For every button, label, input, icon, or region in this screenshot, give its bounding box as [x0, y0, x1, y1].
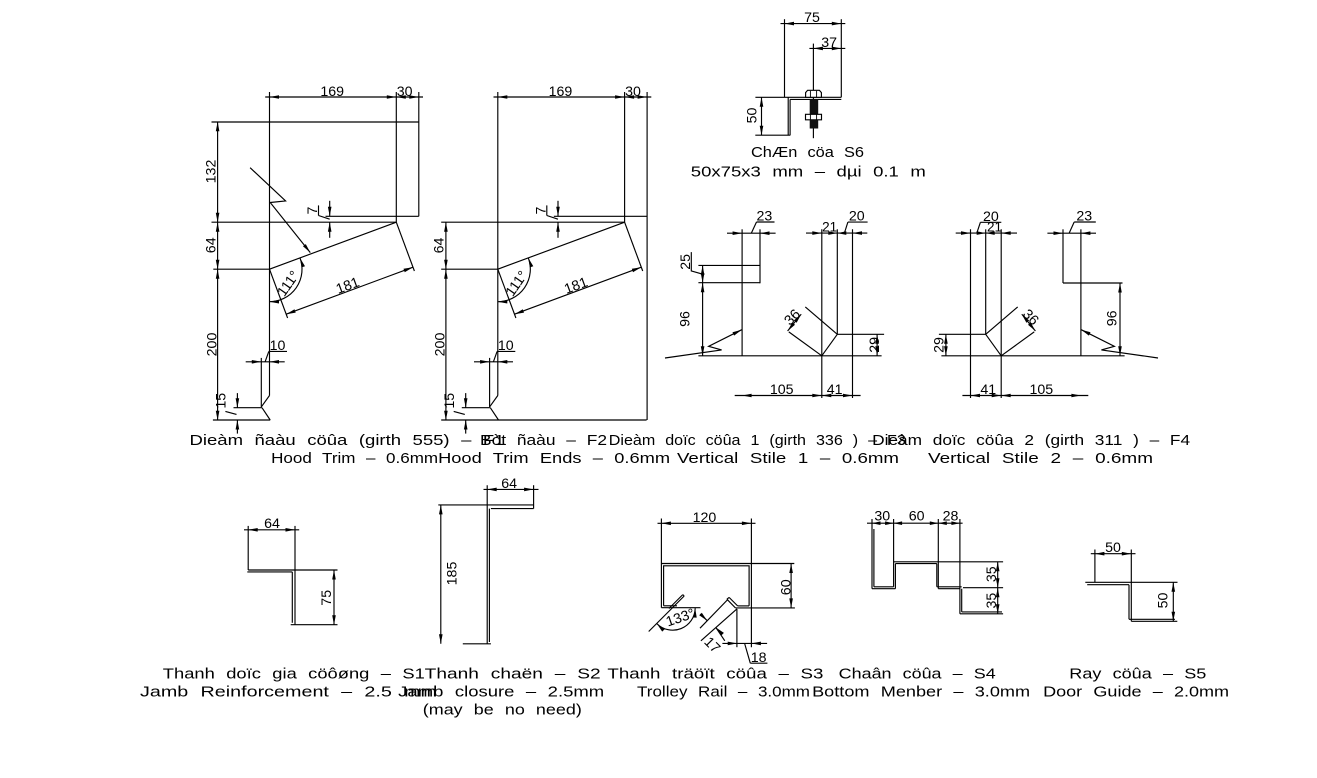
ext line F1 y269 — [213, 268, 269, 270]
profile F4 vertical 21b — [985, 229, 987, 334]
profile S1 left vertical — [247, 526, 249, 570]
profile F4 step horizontal — [1063, 282, 1123, 284]
profile F2 outer right vertical — [646, 92, 648, 420]
svg-text:105: 105 — [1029, 382, 1053, 398]
bolt S6 head — [806, 90, 822, 97]
svg-text:30: 30 — [874, 509, 890, 525]
svg-text:ChÆn cöa S6: ChÆn cöa S6 — [751, 145, 864, 161]
bolt S6 shank lower — [810, 120, 819, 129]
dim 18 S3 arrows — [728, 642, 738, 646]
dim 105 F3 arrows — [742, 394, 752, 398]
profile F1 long step line — [212, 221, 397, 223]
dim 18 S3 line — [722, 642, 767, 644]
dim 181 F1 left ext — [270, 269, 288, 318]
profile F2 offset vertical — [489, 358, 491, 407]
ext S6 right vertical — [840, 19, 842, 97]
svg-text:Bòt ñaàu – F2: Bòt ñaàu – F2 — [480, 433, 607, 449]
dim 36 F3 arrows — [794, 314, 801, 323]
dim 20 F4 arrows — [986, 231, 995, 235]
bolt S6 shank upper — [810, 99, 819, 114]
dim 111deg F2 arc — [498, 258, 531, 302]
profile F3 vertical 21a — [821, 229, 823, 398]
svg-text:25: 25 — [678, 254, 694, 270]
svg-text:Thanh doïc gia cöôøng – S1: Thanh doïc gia cöôøng – S1 — [163, 667, 425, 683]
profile F4 flange diag lower — [1001, 332, 1034, 356]
profile S4 bottom right inner — [962, 611, 1002, 613]
profile S4 mid top inner — [895, 563, 936, 565]
dim 10 F2 underline — [497, 350, 515, 352]
dim 169 F2 arrows — [498, 95, 508, 99]
dim 181 F2 dim line — [515, 267, 642, 314]
dim 30/60/28 S4 line — [867, 522, 963, 524]
dim 50 S5 top arrows — [1095, 552, 1105, 556]
dim 105 F4 arrows — [1001, 394, 1011, 398]
dim 35 upper S4 arrows — [996, 562, 1000, 572]
dim 75 S6 line — [781, 23, 846, 25]
svg-text:169: 169 — [549, 84, 573, 100]
profile S3 bottom left inner — [664, 605, 677, 607]
dim 200 F2 arrows — [444, 269, 448, 279]
ext S6 left vertical — [784, 19, 786, 97]
svg-text:132: 132 — [203, 160, 219, 184]
profile S2 inner vertical — [488, 509, 490, 642]
dim 37 S6 line — [809, 47, 845, 49]
svg-text:Hood Trim – 0.6mm: Hood Trim – 0.6mm — [271, 451, 438, 467]
svg-text:7: 7 — [305, 206, 321, 214]
svg-text:96: 96 — [678, 311, 694, 327]
svg-text:Thanh chaën – S2: Thanh chaën – S2 — [425, 667, 601, 683]
svg-text:50: 50 — [1155, 593, 1171, 609]
profile S4 left leg inner — [873, 529, 875, 587]
svg-text:169: 169 — [320, 84, 344, 100]
profile F1 inner right vertical — [395, 92, 397, 222]
svg-text:64: 64 — [432, 238, 448, 254]
profile S4 bottom right outer — [960, 613, 1003, 615]
profile S3 right lip inner — [729, 597, 738, 606]
profile F3 vertical 20 — [852, 229, 854, 398]
profile S5 mid vertical outer — [1130, 550, 1132, 622]
profile F3 vertical 21b — [836, 229, 838, 334]
dim 29 F4 line — [945, 334, 947, 356]
profile F4 flange diag upper — [986, 307, 1018, 334]
svg-text:18: 18 — [751, 650, 767, 666]
dim 169/30 F1 dim line — [265, 96, 423, 98]
dim 25 F3 leader — [691, 252, 701, 274]
profile F3 step horizontal — [837, 333, 884, 335]
leader F3 zigzag — [665, 330, 742, 358]
profile S4 right leg inner — [961, 589, 963, 612]
dim 17 S3 ext B — [701, 609, 737, 641]
dim 21 F3 arrows — [812, 231, 822, 235]
profile S5 top inner line — [1087, 584, 1129, 586]
dim 20 F3 underline — [848, 221, 868, 223]
profile S3 bottom left outer — [661, 607, 700, 609]
dim column F1 line — [217, 122, 219, 421]
svg-text:60: 60 — [778, 579, 794, 595]
dim 23 F4 underline — [1074, 221, 1096, 223]
profile S5 left vertical — [1094, 550, 1096, 583]
profile F1 bottom line — [213, 419, 270, 421]
profile F1 jog diagonal — [261, 396, 269, 407]
bolt S6 centerline — [812, 44, 814, 139]
dim 181 F2 arrows — [515, 309, 525, 314]
dim 111deg F1 arc — [270, 258, 303, 302]
svg-text:64: 64 — [264, 516, 280, 532]
dim 7 F2 slant — [547, 216, 558, 220]
svg-text:120: 120 — [693, 510, 717, 526]
dim 15 F1 slant — [225, 411, 236, 414]
svg-text:10: 10 — [498, 338, 514, 354]
svg-text:Vertical Stile 2 – 0.6mm: Vertical Stile 2 – 0.6mm — [928, 451, 1153, 467]
dim 25/96 F3 line — [702, 265, 704, 355]
profile S4 mid shelf outer — [938, 588, 960, 590]
dim 30 F2 arrows — [625, 95, 635, 99]
profile S1 bottom line — [291, 624, 338, 626]
dim 20 F4 underline — [980, 221, 1001, 223]
dim 120 S3 arrows — [661, 522, 671, 526]
profile F1 foot top — [234, 407, 263, 409]
dim 50 S6 arrows — [760, 97, 764, 107]
dim 17 S3 arrows — [699, 613, 707, 621]
profile S3 inner rect — [664, 566, 750, 606]
svg-text:(may be no need): (may be no need) — [423, 702, 582, 718]
svg-text:64: 64 — [203, 237, 219, 253]
svg-text:Trolley Rail – 3.0mm: Trolley Rail – 3.0mm — [637, 685, 810, 701]
svg-text:23: 23 — [757, 209, 773, 225]
dim 18 S3 ext — [736, 609, 738, 647]
dim 133deg S3 arc — [657, 608, 695, 630]
svg-text:Door Guide – 2.0mm: Door Guide – 2.0mm — [1043, 685, 1229, 701]
profile F4 bend diagonal — [986, 334, 1002, 356]
dim 50 S5 right arrows — [1172, 582, 1176, 592]
dim 35/35 S4 line — [997, 562, 999, 614]
svg-text:96: 96 — [1105, 310, 1121, 326]
dim 41/105 F4 line — [962, 395, 1088, 397]
leader F4 zigzag — [1081, 330, 1158, 358]
profile F4 vertical 20 — [970, 229, 972, 398]
svg-text:75: 75 — [319, 590, 335, 606]
profile S2 left vertical — [486, 485, 488, 644]
dim 21/20 F3 line — [806, 232, 867, 234]
svg-text:Ray cöûa – S5: Ray cöûa – S5 — [1069, 667, 1206, 683]
dim 21 F4 arrows — [1001, 231, 1011, 235]
dim 28 S4 arrows — [938, 521, 947, 525]
profile F3 flange top — [698, 264, 760, 266]
profile F1 inclined edge — [270, 222, 397, 269]
svg-text:10: 10 — [270, 338, 286, 354]
profile S3 outer left vertical — [660, 519, 662, 608]
profile S3 outer top — [661, 563, 794, 565]
dim 17 S3 line — [701, 614, 708, 621]
profile F2 foot right slant — [490, 408, 498, 420]
dim 29 F3 arrows — [875, 334, 879, 344]
dim 96 F4 arrows — [1118, 283, 1122, 293]
ext S4 mid 35 — [963, 587, 1003, 589]
dim 181 F2 right ext — [625, 222, 643, 271]
dim 111deg F2 arrows — [528, 258, 533, 268]
dim 7 F1 tick — [318, 205, 320, 215]
dim 30 S4 arrows — [872, 521, 881, 525]
profile F1 top line — [212, 121, 419, 123]
dim 15 F1 line — [236, 393, 238, 408]
svg-text:75: 75 — [804, 10, 820, 26]
dim 10 F1 slant — [265, 351, 269, 361]
dim 20 F3 arrows — [828, 231, 837, 235]
dim 75 S6 arrows — [785, 22, 795, 26]
dim 181 F2 left ext — [498, 269, 516, 318]
svg-text:35: 35 — [984, 566, 1000, 582]
profile F3 flange right vertical — [759, 229, 761, 283]
profile F3 flange diag upper — [805, 307, 837, 334]
svg-text:50: 50 — [1105, 540, 1121, 556]
svg-text:Dieàm doïc cöûa 2 (girth 311 ): Dieàm doïc cöûa 2 (girth 311 ) – F4 — [872, 433, 1190, 449]
svg-text:15: 15 — [442, 393, 458, 409]
svg-text:15: 15 — [214, 393, 230, 409]
profile F4 step vertical — [1062, 229, 1064, 283]
profile F2 long step line — [441, 221, 624, 223]
profile S3 bottom right outer — [735, 607, 795, 609]
svg-text:30: 30 — [625, 84, 641, 100]
svg-text:Dieàm doïc cöûa 1 (girth 336 ): Dieàm doïc cöûa 1 (girth 336 ) – F3 — [609, 433, 906, 449]
dim 37 S6 arrows — [813, 47, 823, 51]
dim 60 S3 arrows — [789, 564, 793, 574]
svg-text:Jamb Reinforcement – 2.5 mm: Jamb Reinforcement – 2.5 mm — [140, 685, 437, 701]
svg-text:37: 37 — [821, 35, 837, 51]
dim 18 S3 underline — [750, 662, 767, 664]
profile S4 bottom left inner — [874, 586, 894, 588]
profile S5 bottom outer — [1131, 620, 1177, 622]
dim 169 F1 arrows — [270, 95, 280, 99]
dim 15 F1 arrows — [236, 398, 240, 408]
dim 30 F1 arrows — [396, 95, 406, 99]
dim 64 F2 arrows — [444, 222, 448, 232]
ext line F2 y269 — [441, 268, 498, 270]
profile S2 right cap — [533, 485, 535, 508]
profile F4 bottom line — [941, 355, 1124, 357]
dim 7 F1 slant — [319, 216, 330, 220]
dim 20 F3 slant — [844, 222, 848, 233]
profile S5 mid vertical inner — [1128, 585, 1130, 620]
svg-text:Bottom Menber – 3.0mm: Bottom Menber – 3.0mm — [812, 685, 1030, 701]
svg-text:20: 20 — [849, 209, 865, 225]
profile S3 outer right vertical — [750, 519, 752, 648]
dim 23 F3 arrows — [733, 231, 743, 235]
svg-text:Chaân cöûa – S4: Chaân cöûa – S4 — [839, 667, 996, 683]
dim 36 F4 arrows — [1022, 314, 1029, 323]
dim 7 F2 tick — [546, 205, 548, 215]
svg-text:105: 105 — [770, 382, 794, 398]
dim 7 F2 line — [557, 201, 559, 217]
dim 36 F4 line — [1022, 314, 1036, 331]
profile S4 mid leg left — [893, 519, 895, 587]
dim 29 F4 arrows — [944, 334, 948, 344]
leader F4 arrow — [1081, 330, 1090, 336]
svg-text:29: 29 — [932, 337, 948, 353]
profile S4 right leg outer — [959, 519, 961, 614]
dim 7 F1 arrows — [328, 207, 332, 217]
svg-text:Hood Trim Ends – 0.6mm: Hood Trim Ends – 0.6mm — [438, 451, 670, 467]
profile S4 left leg outer — [871, 519, 873, 589]
svg-text:64: 64 — [501, 476, 517, 492]
dim 60 S3 line — [790, 564, 792, 608]
svg-text:50x75x3 mm – dµi 0.1 m: 50x75x3 mm – dµi 0.1 m — [691, 164, 926, 180]
ext S6 bottom — [755, 134, 790, 136]
dim 29 F3 line — [876, 334, 878, 356]
dim 50 S5 top line — [1091, 553, 1136, 555]
profile S2 bottom line — [463, 643, 491, 645]
dim 23 F3 slant — [751, 222, 756, 233]
dim 10 F1 arrows — [252, 360, 261, 364]
dim 181 F1 dim line — [286, 267, 413, 314]
profile F1 offset vertical — [260, 358, 262, 407]
svg-text:41: 41 — [980, 382, 996, 398]
bracket S6 flange top — [755, 96, 841, 98]
dim 20/21 F4 line — [956, 232, 1017, 234]
profile S2 top line — [438, 504, 533, 506]
dim 7 F2 arrows — [556, 207, 560, 217]
dim column F2 line — [445, 222, 447, 420]
dim 23 F4 slant — [1069, 222, 1074, 233]
dim 181 F1 right ext — [396, 222, 414, 271]
svg-text:50: 50 — [744, 108, 760, 124]
bracket S6 web outer — [787, 97, 789, 135]
svg-text:35: 35 — [984, 593, 1000, 609]
dim 10 F2 line — [474, 361, 513, 363]
dim 7 F1 line — [329, 201, 331, 217]
profile F3 main left vertical — [741, 229, 743, 355]
dim 64 F1 arrows — [216, 222, 220, 232]
dim 132 F1 arrows — [216, 122, 220, 132]
leader F3 arrow — [733, 330, 742, 336]
dim 64 S2 arrows — [487, 488, 497, 492]
bracket S6 web inner — [789, 99, 791, 135]
svg-text:200: 200 — [433, 333, 449, 357]
profile S4 mid top outer — [894, 561, 1004, 563]
dim 64 S2 line — [484, 488, 539, 490]
dim 36 F3 line — [788, 314, 802, 331]
leader F1 arrow — [303, 244, 310, 253]
svg-text:30: 30 — [397, 84, 413, 100]
profile F3 bend diagonal — [822, 334, 838, 356]
dim 15 F2 line — [465, 393, 467, 408]
svg-text:Thanh träöït cöûa – S3: Thanh träöït cöûa – S3 — [607, 667, 823, 683]
profile F2 left vertical — [497, 92, 499, 396]
profile S5 bottom inner — [1129, 618, 1175, 620]
profile S1 right vertical outer — [294, 526, 296, 625]
svg-text:21: 21 — [822, 220, 837, 235]
profile F1 outer right vertical — [418, 92, 420, 216]
dim 18 S3 slant — [745, 643, 751, 663]
svg-text:Vertical Stile 1 – 0.6mm: Vertical Stile 1 – 0.6mm — [677, 451, 899, 467]
dim 133deg S3 arrows — [657, 624, 665, 632]
dim 23 F4 line — [1047, 232, 1096, 234]
profile F1 left vertical — [269, 92, 271, 396]
profile S2 top inner line — [491, 508, 534, 510]
profile S1 shelf bottom — [247, 571, 292, 573]
profile F2 jog diagonal — [490, 396, 498, 407]
dim 64 S1 line — [244, 529, 299, 531]
svg-text:23: 23 — [1076, 209, 1092, 225]
profile F3 bottom line — [698, 355, 881, 357]
dim 10 F2 slant — [493, 351, 497, 361]
profile F4 vertical 21a — [1000, 229, 1002, 398]
svg-text:Dieàm ñaàu cöûa (girth 555) –: Dieàm ñaàu cöûa (girth 555) – F1 — [190, 433, 505, 449]
profile F1 box bottom line — [326, 215, 419, 217]
dim 20 F4 slant — [977, 222, 981, 233]
profile S4 step leg outer — [937, 519, 939, 589]
bolt S6 nut — [806, 114, 822, 120]
dim 50 S5 right line — [1172, 582, 1174, 621]
svg-text:185: 185 — [445, 562, 461, 586]
dim 25 F3 arrows — [701, 265, 705, 275]
dim 17 S3 ext A — [700, 599, 728, 628]
svg-text:60: 60 — [909, 509, 925, 525]
dim 200 F1 arrows — [216, 269, 220, 279]
dim 23 F3 underline — [757, 221, 775, 223]
profile S5 top line — [1085, 581, 1177, 583]
dim 181 F1 arrows — [286, 309, 296, 314]
dim 15 F2 slant — [454, 411, 465, 414]
dim 111deg F1 arrows — [300, 258, 305, 268]
profile F2 inner right vertical — [624, 92, 626, 222]
svg-text:28: 28 — [943, 509, 959, 525]
bracket S6 flange underside — [790, 98, 841, 100]
profile F2 foot top — [462, 407, 491, 409]
profile S3 left lip cap — [683, 595, 684, 596]
profile S1 shelf top — [248, 569, 337, 571]
profile S3 bottom right inner — [738, 605, 750, 607]
profile F4 main right vertical — [1080, 229, 1082, 355]
profile S1 right vertical inner — [291, 572, 293, 623]
profile F4 step horizontal 29 — [939, 333, 986, 335]
dim 10 F1 line — [246, 361, 285, 363]
profile S4 mid leg right — [894, 564, 896, 589]
svg-text:20: 20 — [983, 209, 999, 225]
dim 96 F3 arrows — [701, 283, 705, 293]
svg-text:7: 7 — [533, 206, 549, 214]
dim 169/30 F2 dim line — [494, 96, 652, 98]
profile S3 left lip inner — [669, 595, 683, 609]
dim 185 S2 line — [440, 505, 442, 644]
dim 35 lower S4 arrows — [996, 588, 1000, 598]
svg-text:41: 41 — [827, 382, 843, 398]
dim 10 F2 arrows — [480, 360, 490, 364]
dim 10 F1 underline — [269, 350, 287, 352]
svg-text:200: 200 — [204, 333, 220, 357]
profile F2 box bottom line — [554, 215, 647, 217]
dim 23 F3 line — [727, 232, 776, 234]
leader F1 zigzag — [250, 168, 310, 253]
dim 60 S4 arrows — [894, 521, 903, 525]
dim 41 F4 arrows — [971, 394, 981, 398]
profile F1 foot right slant — [262, 408, 270, 420]
dim 50 S6 line — [761, 97, 763, 135]
svg-text:Jamb closure – 2.5mm: Jamb closure – 2.5mm — [398, 685, 604, 701]
profile S4 step leg inner — [936, 564, 938, 587]
dim 41 F3 arrows — [822, 394, 832, 398]
profile S3 right lip cap — [727, 597, 729, 599]
dim 96 F4 line — [1119, 283, 1121, 356]
dim 120 S3 line — [658, 522, 756, 524]
dim 15 F2 arrows — [464, 398, 468, 408]
svg-text:29: 29 — [867, 337, 883, 353]
dim 75 S1 arrows — [332, 570, 336, 580]
profile S4 bottom left outer — [872, 588, 895, 590]
dim 64 S1 arrows — [248, 528, 258, 532]
dim 23 F4 arrows — [1054, 231, 1064, 235]
profile F3 flange diag lower — [789, 332, 822, 356]
profile F3 flange bottom — [698, 282, 760, 284]
